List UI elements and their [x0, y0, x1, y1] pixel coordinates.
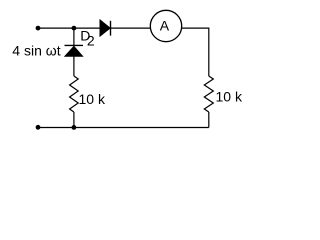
wire right branch upper — [208, 28, 210, 77]
diode D2 (series, horizontal) — [100, 20, 111, 37]
svg-text:10 k: 10 k — [216, 89, 243, 105]
wire top (terminal to diode anode) — [38, 27, 100, 29]
terminal dot top-left — [36, 26, 41, 31]
resistor R1 10k (left) — [70, 76, 79, 112]
wire bottom — [38, 127, 209, 129]
node junction bottom — [72, 125, 77, 130]
wire left branch lower — [73, 112, 75, 128]
wire diode to ammeter — [111, 27, 151, 29]
svg-text:4 sin ωt: 4 sin ωt — [12, 42, 60, 58]
wire right branch lower — [208, 112, 210, 128]
resistor R2 10k (right) — [204, 76, 213, 112]
svg-text:10 k: 10 k — [79, 91, 106, 107]
label D2 — [80, 27, 95, 48]
wire left branch upper (junction to diode) — [73, 28, 75, 45]
node junction top — [72, 26, 77, 31]
diode D1 (shunt, vertical, pointing up) — [65, 45, 84, 56]
terminal dot bottom-left — [36, 125, 41, 130]
svg-text:2: 2 — [87, 33, 95, 49]
wire left branch middle (diode to resistor) — [73, 57, 75, 77]
svg-text:A: A — [160, 18, 170, 34]
wire ammeter to top-right corner — [182, 27, 209, 29]
ammeter A1 — [150, 10, 181, 41]
